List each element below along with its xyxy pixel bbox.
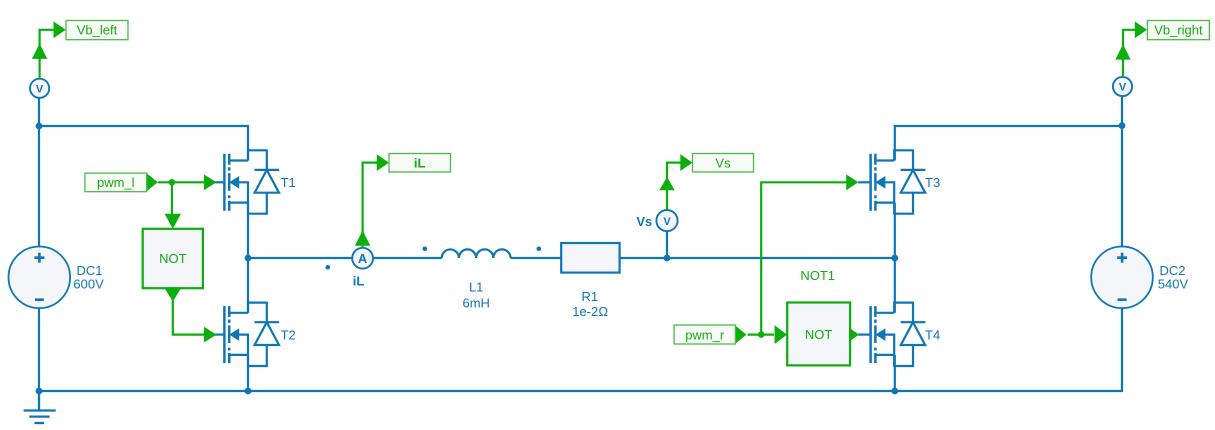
svg-text:T1: T1 — [281, 175, 296, 190]
voltage source DC1 — [9, 246, 105, 308]
voltmeter Vb_left — [30, 79, 49, 98]
wire: T4 drain — [894, 258, 896, 313]
svg-text:600V: 600V — [73, 277, 104, 292]
svg-text:V: V — [36, 83, 44, 95]
voltmeter Vs — [636, 210, 677, 231]
wire: mid rail, ammeter to L1 — [373, 257, 442, 259]
input port pwm_r — [674, 325, 735, 344]
arrow: Vb_right right — [1135, 21, 1147, 38]
wire: T2 source to bottom rail — [247, 355, 249, 391]
wire: DC1 bottom lead — [38, 308, 40, 391]
svg-text:R1: R1 — [581, 289, 598, 304]
logic gate NOT1 (right) — [787, 268, 850, 365]
svg-text:L1: L1 — [469, 280, 483, 295]
arrow: NOT1 input — [775, 325, 787, 344]
svg-text:Vs: Vs — [715, 155, 731, 170]
svg-text:NOT: NOT — [805, 327, 833, 342]
wire: junction up and to gate T3 — [761, 182, 847, 334]
label Vb_right — [1147, 21, 1209, 40]
wire: T4 source to bottom rail — [894, 355, 896, 391]
svg-text:Vs: Vs — [636, 214, 652, 229]
inductor L1 — [442, 249, 511, 310]
transistor T1 — [212, 150, 296, 213]
svg-text:6mH: 6mH — [462, 295, 489, 310]
node: L1 right polarity dot — [537, 247, 542, 252]
wire: T1 source to midpoint node — [247, 203, 249, 259]
svg-text:A: A — [358, 251, 368, 266]
svg-text:540V: 540V — [1158, 277, 1189, 292]
wire: top-right rail — [895, 126, 1122, 161]
svg-text:iL: iL — [414, 155, 426, 170]
transistor T4 — [858, 303, 940, 366]
arrow: iL up — [355, 230, 370, 245]
voltage source DC2 — [1091, 246, 1188, 308]
label iL — [389, 154, 451, 173]
wire: Vb_right probe — [1123, 30, 1136, 77]
arrow: Vb_right up — [1115, 44, 1130, 59]
node: right bridge midpoint — [891, 255, 898, 262]
wire: T2 drain from midpoint node — [247, 258, 249, 313]
wire: bottom rail and DC2 bottom lead — [39, 308, 1122, 391]
wire: mid rail, R1 to right leg — [620, 257, 895, 259]
svg-text:iL: iL — [353, 274, 365, 289]
arrow: Vb_left up — [32, 44, 47, 59]
wire: Vs voltmeter lead — [666, 231, 668, 258]
node: top-left junction — [36, 123, 43, 130]
wire: left voltmeter lead down to top rail — [38, 98, 40, 127]
wire: T3 source to midpoint — [894, 203, 896, 259]
svg-text:V: V — [1119, 82, 1127, 94]
svg-text:NOT1: NOT1 — [800, 268, 835, 283]
svg-text:DC1: DC1 — [77, 263, 103, 278]
arrow: Vs up — [659, 177, 674, 190]
node: T2 source at bottom rail — [245, 388, 252, 395]
wire: Vb_left probe — [40, 30, 55, 79]
label Vs — [693, 154, 754, 173]
node: pwm_l junction — [169, 179, 176, 186]
transistor T2 — [212, 303, 296, 366]
arrow: T1 gate input — [204, 174, 217, 190]
wire: mid rail, L1 to R1 — [511, 257, 562, 259]
node: ammeter polarity dot — [326, 265, 331, 270]
svg-text:1e-2Ω: 1e-2Ω — [572, 304, 608, 319]
arrow: NOT1 output / T4 gate — [850, 328, 859, 341]
wire: top-left rail to T1 drain — [39, 126, 248, 161]
svg-text:pwm_r: pwm_r — [685, 327, 725, 342]
arrow: NOT(left) output — [165, 288, 181, 301]
svg-text:Vb_left: Vb_left — [77, 23, 118, 38]
label Vb_left — [66, 21, 128, 40]
wire: right voltmeter lead — [1121, 97, 1123, 127]
resistor R1 — [561, 243, 619, 319]
arrow: T3 gate input — [846, 174, 858, 190]
transistor T3 — [858, 150, 940, 213]
wire: mid rail, node to ammeter — [247, 257, 352, 259]
voltmeter Vb_right — [1113, 77, 1132, 96]
svg-text:NOT: NOT — [159, 251, 187, 266]
wire: pwm_l to gate T1 — [158, 181, 205, 183]
ground — [24, 391, 56, 423]
wire: Vs probe — [667, 163, 681, 210]
arrow: pwm_r output — [735, 326, 746, 344]
node: T4 source at bottom rail — [891, 388, 898, 395]
node: Vs junction — [664, 255, 671, 262]
node: L1 left polarity dot — [423, 247, 428, 252]
ammeter iL — [352, 248, 373, 289]
wire: NOT output to gate T2 — [173, 301, 205, 335]
svg-text:Vb_right: Vb_right — [1154, 23, 1203, 38]
svg-text:V: V — [663, 216, 671, 228]
arrow: Vs right — [680, 154, 692, 171]
arrow: pwm_l output — [147, 173, 158, 191]
svg-text:pwm_l: pwm_l — [97, 175, 135, 190]
node: top-right junction — [1119, 122, 1126, 129]
arrow: T2 gate input — [204, 327, 217, 343]
arrow: NOT(left) input — [165, 214, 181, 229]
node: pwm_r junction — [758, 331, 765, 338]
wire: DC1 top lead — [38, 126, 40, 247]
input port pwm_l — [85, 173, 147, 192]
wire: iL probe — [363, 163, 378, 248]
wire: DC2 top lead — [1121, 126, 1123, 247]
svg-text:T3: T3 — [925, 175, 940, 190]
wire: pwm_l branch down to NOT — [171, 182, 173, 214]
arrow: Vb_left right — [54, 21, 66, 38]
wire: pwm_r to junction — [748, 334, 774, 336]
node: left bridge midpoint — [245, 255, 252, 262]
logic gate NOT (left) — [143, 229, 203, 288]
arrow: iL right — [377, 154, 389, 171]
node: bottom-left junction — [36, 388, 43, 395]
svg-text:T2: T2 — [281, 328, 296, 343]
svg-text:DC2: DC2 — [1160, 263, 1186, 278]
svg-text:T4: T4 — [925, 328, 940, 343]
